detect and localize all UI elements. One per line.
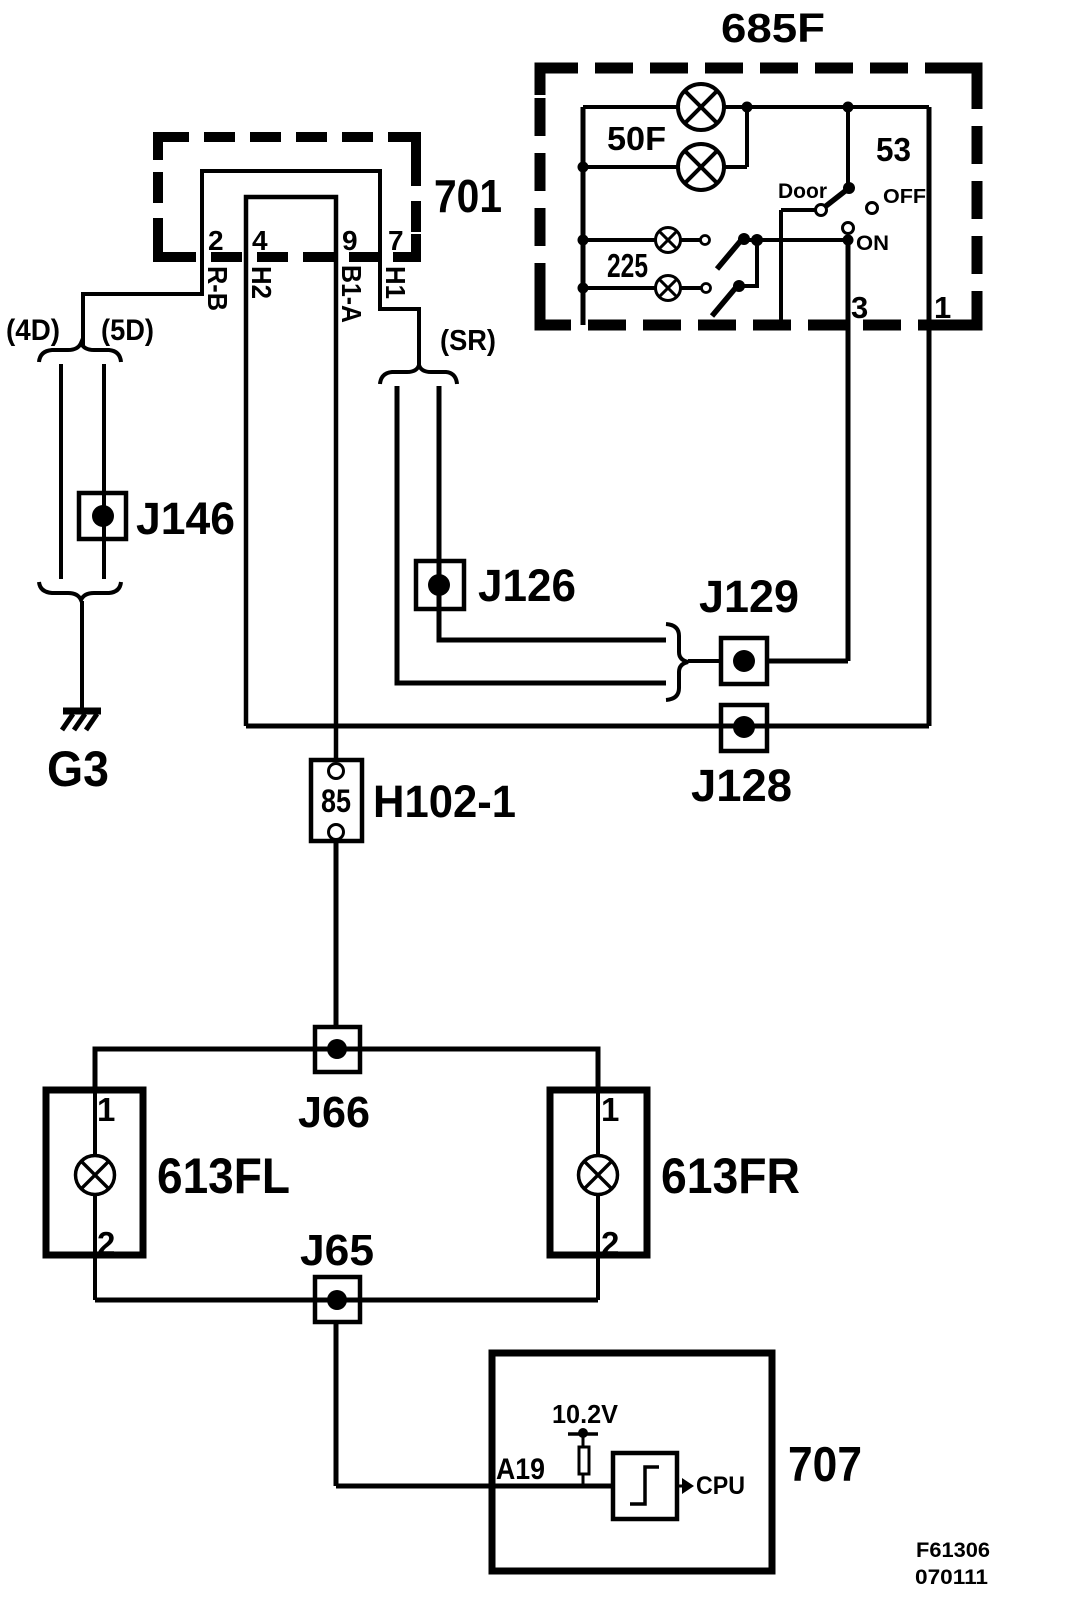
label J128 — [691, 760, 792, 811]
node junction bus-row2 — [578, 162, 589, 173]
svg-text:50F: 50F — [607, 120, 666, 157]
label 613FR pin2 — [601, 1225, 619, 1262]
supply 10.2V symbol — [568, 1428, 598, 1447]
label pin 3 — [851, 290, 868, 325]
lamp 50F lower — [678, 144, 724, 190]
label 50F — [607, 120, 666, 157]
label G3 — [47, 741, 109, 797]
label J65 — [300, 1226, 374, 1275]
svg-text:685F: 685F — [721, 5, 825, 51]
svg-text:2: 2 — [601, 1225, 619, 1262]
svg-text:53: 53 — [876, 131, 911, 168]
svg-text:7: 7 — [388, 225, 404, 256]
svg-text:(5D): (5D) — [101, 314, 154, 347]
label CPU — [696, 1472, 745, 1500]
wire lamp row 2 — [583, 107, 747, 167]
wire lamp row 1 — [583, 105, 929, 109]
svg-text:1: 1 — [97, 1091, 115, 1128]
label J146 — [136, 493, 235, 544]
wire switch to ON — [743, 238, 848, 242]
label wire R-B — [202, 266, 233, 311]
svg-text:CPU: CPU — [696, 1472, 745, 1500]
module 707 box — [492, 1353, 772, 1571]
brace SR — [380, 365, 457, 384]
ground G3 — [62, 711, 101, 730]
wire J128 horizontal — [246, 724, 929, 729]
label OFF — [883, 186, 926, 208]
svg-text:(SR): (SR) — [440, 325, 496, 357]
node junction bus-row4 — [578, 283, 589, 294]
label 701 — [434, 170, 502, 222]
wire lamp row 4 — [583, 286, 701, 290]
connector J129 — [721, 638, 767, 684]
wire 685F left bus — [581, 107, 586, 325]
svg-text:H102-1: H102-1 — [373, 776, 516, 827]
node junction switch — [751, 234, 763, 246]
svg-text:2: 2 — [97, 1225, 115, 1262]
switch arm lower — [712, 280, 745, 316]
label 53 — [876, 131, 911, 168]
contact row 4 — [702, 284, 711, 293]
label J129 — [699, 571, 799, 622]
label pin 4 — [252, 225, 268, 256]
label H102-1 — [373, 776, 516, 827]
lamp unit 613FL box — [46, 1090, 143, 1255]
contact row 3 — [701, 236, 710, 245]
node junction bus-row3 — [578, 235, 589, 246]
connector J126 — [416, 561, 464, 609]
wire pin4 H2 loop and pin9 B1-A — [246, 197, 336, 763]
wire J65 to 707 — [336, 1322, 613, 1486]
contact Door pivot — [816, 205, 827, 216]
lamp 613FR — [579, 1156, 618, 1195]
svg-text:613FL: 613FL — [157, 1148, 290, 1204]
connector J65 — [315, 1277, 360, 1322]
wire pin1 drop — [927, 107, 932, 726]
lamp 613FL — [76, 1156, 115, 1195]
label wire H2 — [246, 266, 277, 299]
arrow to CPU — [677, 1478, 694, 1494]
wire SR left — [397, 386, 666, 683]
label wire B1-A — [336, 265, 367, 323]
connector J146 — [79, 493, 126, 539]
lamp 225 upper — [656, 228, 681, 253]
wire brace to J129 — [688, 659, 721, 663]
label J126 — [478, 560, 576, 611]
label 10.2V — [552, 1399, 619, 1429]
schmitt trigger U1 — [613, 1453, 677, 1519]
label (SR) — [440, 325, 496, 357]
svg-text:Door: Door — [778, 180, 827, 203]
svg-text:10.2V: 10.2V — [552, 1399, 619, 1429]
label J66 — [298, 1088, 370, 1137]
svg-text:J66: J66 — [298, 1088, 370, 1137]
node door arm top — [843, 182, 855, 194]
resistor pull-up — [579, 1447, 589, 1486]
contact OFF — [867, 203, 878, 214]
node junction ON — [843, 235, 854, 246]
svg-text:H1: H1 — [380, 266, 411, 299]
svg-text:J146: J146 — [136, 493, 235, 544]
label 070111 — [915, 1566, 988, 1589]
label 613FR — [661, 1148, 800, 1204]
svg-text:707: 707 — [788, 1438, 862, 1492]
label pin 85 — [321, 783, 351, 819]
svg-text:ON: ON — [856, 232, 889, 255]
svg-text:OFF: OFF — [883, 186, 926, 208]
label 225 — [607, 247, 648, 284]
svg-text:2: 2 — [208, 225, 224, 256]
label 707 — [788, 1438, 862, 1492]
connector 701 dashed box — [158, 137, 416, 257]
wire J129 to pin3 — [767, 240, 848, 661]
svg-text:1: 1 — [601, 1091, 619, 1128]
brace 4D/5D bottom — [39, 582, 121, 600]
label (4D) — [6, 314, 60, 347]
svg-text:1: 1 — [934, 290, 951, 325]
svg-text:9: 9 — [342, 225, 358, 256]
brace 4D/5D top — [39, 343, 121, 362]
wire bottom lamp loop — [95, 1298, 598, 1303]
contact ON — [843, 223, 854, 234]
svg-text:J128: J128 — [691, 760, 792, 811]
label 613FL — [157, 1148, 290, 1204]
wire SR right to J126 — [439, 386, 666, 640]
svg-text:225: 225 — [607, 247, 648, 284]
label pin 2 — [208, 225, 224, 256]
node junction row1-row2 — [742, 102, 753, 113]
svg-text:070111: 070111 — [915, 1566, 988, 1589]
label pin 1 — [934, 290, 951, 325]
label wire H1 — [380, 266, 411, 299]
label pin 9 — [342, 225, 358, 256]
svg-text:85: 85 — [321, 783, 351, 819]
lamp unit 613FR box — [550, 1090, 647, 1255]
label (5D) — [101, 314, 154, 347]
switch Door arm — [826, 188, 849, 206]
svg-text:H2: H2 — [246, 266, 277, 299]
label 613FL pin2 — [97, 1225, 115, 1262]
svg-text:A19: A19 — [496, 1453, 545, 1486]
svg-text:J126: J126 — [478, 560, 576, 611]
wire 613FL through — [93, 1087, 97, 1300]
wire H102-1 to J66 — [334, 839, 339, 1028]
lamp 225 lower — [656, 276, 681, 301]
label A19 — [496, 1453, 545, 1486]
wire lamp row 3 — [583, 238, 700, 242]
switch arm upper — [717, 233, 750, 269]
connector J128 — [721, 705, 767, 751]
svg-text:J65: J65 — [300, 1226, 374, 1275]
label Door — [778, 180, 827, 203]
svg-text:701: 701 — [434, 170, 502, 222]
wire to ground — [80, 601, 84, 709]
wire pin2 R-B loop and pin7 H1 — [83, 171, 419, 366]
wire door to left — [781, 210, 815, 325]
label pin 7 — [388, 225, 404, 256]
svg-text:3: 3 — [851, 290, 868, 325]
connector 685F dashed box — [540, 68, 977, 325]
svg-text:J129: J129 — [699, 571, 799, 622]
wire 5D branch — [102, 364, 106, 579]
svg-text:B1-A: B1-A — [336, 265, 367, 323]
label 613FR pin1 — [601, 1091, 619, 1128]
wire top lamp loop — [95, 1049, 598, 1087]
svg-text:R-B: R-B — [202, 266, 233, 311]
svg-text:4: 4 — [252, 225, 268, 256]
label 685F — [721, 5, 825, 51]
label F61306 — [916, 1539, 990, 1562]
svg-text:(4D): (4D) — [6, 314, 60, 347]
svg-text:613FR: 613FR — [661, 1148, 800, 1204]
wire switch link — [739, 240, 757, 286]
wire door riser — [846, 107, 850, 188]
label 613FL pin1 — [97, 1091, 115, 1128]
node junction row1-door — [843, 102, 854, 113]
label ON — [856, 232, 889, 255]
svg-text:G3: G3 — [47, 741, 109, 797]
svg-text:F61306: F61306 — [916, 1539, 990, 1562]
brace merge — [666, 624, 688, 700]
wire 613FR through — [596, 1087, 600, 1300]
connector H102-1 — [311, 760, 362, 841]
connector J66 — [315, 1027, 360, 1072]
lamp 50F upper — [678, 84, 724, 130]
wire 4D branch — [59, 364, 63, 579]
